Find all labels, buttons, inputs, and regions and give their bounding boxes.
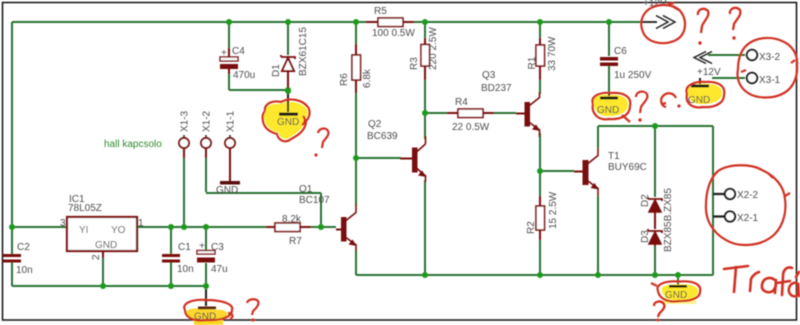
svg-text:GND: GND (277, 117, 299, 128)
red sideways question mark (661, 93, 676, 107)
svg-text:BZX85B.ZX85: BZX85B.ZX85 (663, 188, 674, 252)
wire IC1 output rail (136, 226, 266, 228)
red blob around X3 connectors (737, 38, 797, 98)
wire T1 emitter down (597, 196, 599, 275)
wire Q1 emitter to ground rail mid (355, 250, 357, 275)
svg-text:15 2.5W: 15 2.5W (548, 191, 559, 229)
svg-text:R2: R2 (526, 221, 537, 234)
zener diode D1 (271, 27, 309, 90)
svg-text:33 70W: 33 70W (547, 36, 558, 71)
wire Q2 emitter down (424, 180, 426, 275)
wire right vertical of output loop (712, 126, 714, 275)
svg-text:X1-1: X1-1 (226, 110, 237, 132)
resistor R7 (266, 214, 311, 247)
wire Q2 collector (424, 113, 426, 139)
red circle around +12V gnd (686, 82, 724, 108)
arrow into X3-2 (694, 52, 712, 64)
Trafo handwritten text (724, 266, 799, 296)
resistor R5 (366, 6, 415, 39)
junction Q1 base node (318, 224, 324, 230)
wire C6 bottom to gnd (608, 66, 610, 93)
resistor R6 (339, 44, 373, 93)
junction top rail C6 (606, 19, 612, 25)
wire node to T1 base (540, 170, 574, 172)
junction R2 bottom rail (537, 272, 543, 278)
wire R1 to Q3 collector (539, 80, 541, 94)
wire C4 bottom to D1 anode (229, 74, 288, 90)
wire R7 to Q1 base (309, 226, 336, 228)
ground D1 (yellow highlight) (264, 88, 308, 139)
svg-text:BZX61C15: BZX61C15 (298, 27, 309, 76)
svg-text:R7: R7 (289, 236, 302, 247)
red circle around D1 gnd (263, 99, 310, 141)
capacitor C4 (electrolytic) (220, 46, 255, 81)
svg-text:100 0.5W: 100 0.5W (372, 28, 415, 39)
ground +12V net (yellow highlight) (688, 78, 722, 106)
wire 5V rail to IC1 (12, 226, 67, 228)
capacitor C3 (electrolytic) (197, 241, 228, 275)
junction T1 emitter rail (595, 272, 601, 278)
red question mark right of C6 gnd (636, 92, 647, 113)
svg-text:R3: R3 (409, 57, 420, 70)
wire C2 branch (11, 227, 13, 286)
wire X1-2 to Q1 base node (206, 158, 321, 227)
svg-text:X1-2: X1-2 (202, 110, 213, 132)
connector X1-3 (179, 110, 191, 158)
svg-text:YI: YI (79, 225, 88, 236)
wire Q3 emitter to node (539, 133, 541, 171)
svg-text:GND: GND (597, 105, 619, 116)
wire R3 bottom to node (424, 80, 426, 113)
svg-text:YO: YO (111, 225, 126, 236)
junction top rail D1 (285, 19, 291, 25)
junction R3 Q2 node (422, 110, 428, 116)
svg-text:C4: C4 (232, 46, 245, 57)
connector X2-2 (713, 189, 759, 201)
svg-text:C2: C2 (17, 242, 30, 253)
svg-text:X3-2: X3-2 (759, 52, 781, 63)
junction top rail R3 (422, 19, 428, 25)
svg-text:C3: C3 (211, 242, 224, 253)
svg-text:X2-2: X2-2 (737, 190, 759, 201)
wire R6 top (355, 22, 357, 44)
red question mark top 2 (730, 8, 740, 30)
wire C1 branch (170, 227, 172, 286)
resistor R2 (526, 191, 559, 240)
wire X3-2 to arrow (708, 54, 745, 56)
svg-text:GND: GND (95, 240, 117, 251)
wire X1-3 down (183, 158, 185, 227)
svg-text:1u 250V: 1u 250V (614, 70, 652, 81)
wire left vertical (11, 22, 13, 227)
wire ground rail mid (356, 274, 713, 276)
wire D1 top (287, 22, 289, 55)
connector X3-2 (747, 50, 781, 63)
svg-text:R6: R6 (339, 73, 350, 86)
zener diode D2 (640, 194, 662, 229)
wire R4 to Q3 base (494, 112, 516, 114)
svg-text:R5: R5 (374, 6, 387, 17)
svg-text:1: 1 (138, 218, 144, 229)
transistor T1 BUY69C (574, 148, 647, 196)
red circle around +12V arrow (641, 3, 685, 43)
red blob around X2 connectors (Trafo) (706, 165, 790, 245)
ground bottom right (yellow highlight) (662, 284, 698, 304)
svg-text:2: 2 (91, 254, 102, 260)
svg-text:GND: GND (216, 185, 238, 196)
wire C4 top (228, 22, 230, 48)
svg-text:R1: R1 (527, 56, 538, 69)
wire ground rail left (12, 285, 206, 287)
svg-text:GND: GND (665, 290, 687, 301)
svg-text:Q2: Q2 (368, 119, 382, 130)
wire D2 top (654, 126, 656, 197)
ground X1-1 (216, 181, 240, 196)
resistor R1 (527, 36, 558, 80)
svg-text:78L05Z: 78L05Z (68, 203, 102, 214)
svg-text:X3-1: X3-1 (759, 75, 781, 86)
connector X1-1 (225, 110, 237, 181)
svg-text:Q3: Q3 (482, 70, 496, 81)
junction top rail C4 (226, 19, 232, 25)
+12V arrow output (top) (641, 0, 675, 29)
svg-text:22 0.5W: 22 0.5W (452, 122, 490, 133)
wire T1 collector up (597, 126, 599, 148)
junction gnd rail right (675, 272, 681, 278)
junction D2 top node (652, 123, 658, 129)
wire D3 bottom (654, 245, 656, 275)
svg-text:+12V: +12V (697, 67, 721, 78)
zener diode D3 (640, 188, 674, 252)
wire Q1 collector (355, 158, 357, 205)
red question mark near D1 gnd (318, 129, 328, 148)
red question mark bottom-left (247, 299, 258, 315)
junction top rail R1 (537, 19, 543, 25)
svg-text:C1: C1 (178, 242, 191, 253)
svg-text:+: + (221, 48, 227, 59)
junction top rail R6 (353, 19, 359, 25)
junction IC1 gnd (100, 283, 106, 289)
transistor Q3 BD237 (481, 70, 541, 137)
junction left rail (9, 224, 15, 230)
svg-text:3: 3 (60, 218, 66, 229)
svg-text:hall kapcsolo: hall kapcsolo (104, 139, 162, 150)
IC1 voltage regulator 78L05Z (60, 194, 144, 260)
connector X3-1 (747, 73, 781, 86)
wire R1 top (539, 22, 541, 45)
svg-text:D1: D1 (271, 64, 282, 77)
capacitor C6 (600, 46, 652, 81)
wire gnd stub bottom right (677, 278, 679, 285)
svg-text:X1-3: X1-3 (180, 110, 191, 132)
svg-text:D2: D2 (640, 194, 651, 207)
wire node to Q2 base (356, 157, 401, 159)
wire D2 to D3 (654, 213, 656, 229)
svg-text:BC639: BC639 (367, 131, 398, 142)
red question mark top 1 (698, 9, 708, 33)
svg-text:47u: 47u (211, 264, 228, 275)
svg-text:D3: D3 (640, 230, 651, 243)
ground C6 (yellow highlight) (594, 93, 628, 116)
junction X1-3 (181, 224, 187, 230)
svg-text:+: + (199, 241, 205, 252)
svg-text:8.2k: 8.2k (282, 214, 302, 225)
red oval around bottom-left gnd (184, 300, 232, 321)
wire R2 bottom (539, 240, 541, 275)
svg-text:BD237: BD237 (481, 83, 512, 94)
transistor Q1 BC107 (299, 184, 357, 251)
svg-text:R4: R4 (455, 97, 468, 108)
wire X3-1 +12V net (712, 77, 745, 79)
junction D1 anode node (285, 87, 291, 93)
svg-text:220 2.5W: 220 2.5W (428, 27, 439, 70)
ground C3 bottom (yellow highlight) (186, 289, 228, 325)
capacitor C2 (3, 242, 33, 276)
svg-text:10n: 10n (16, 265, 33, 276)
svg-text:X2-1: X2-1 (737, 213, 759, 224)
junction C1 top (168, 224, 174, 230)
wire R3 top (424, 22, 426, 45)
wire top rail (12, 21, 641, 23)
wire C6 top (608, 22, 610, 56)
junction Q2 emitter rail (422, 272, 428, 278)
svg-text:C6: C6 (614, 46, 627, 57)
svg-text:6.8k: 6.8k (362, 68, 373, 88)
wire T1 collector top (598, 125, 713, 127)
wire node to R4 (425, 112, 447, 114)
junction C3 top (203, 224, 209, 230)
svg-text:BC107: BC107 (299, 195, 330, 206)
svg-text:T1: T1 (608, 151, 620, 162)
junction C3 bottom (203, 283, 209, 289)
svg-text:470u: 470u (233, 70, 255, 81)
connector X1-2 (201, 110, 213, 158)
red oval around bottom-right gnd (651, 281, 700, 301)
junction R6 bottom node (353, 155, 359, 161)
wire R6 bottom node (355, 93, 357, 158)
wire C3 branch (205, 227, 207, 286)
resistor R3 (409, 27, 439, 80)
svg-text:BUY69C: BUY69C (608, 162, 647, 173)
junction C1 bottom (168, 283, 174, 289)
junction Q3 emitter node (537, 168, 543, 174)
svg-text:Q1: Q1 (299, 184, 313, 195)
resistor R4 (447, 97, 494, 133)
red question mark bottom right (654, 302, 664, 317)
junction D3 bottom rail (652, 272, 658, 278)
svg-text:10n: 10n (177, 264, 194, 275)
connector X2-1 (713, 211, 759, 224)
wire IC1 gnd pin (102, 258, 104, 286)
transistor Q2 BC639 (367, 119, 427, 182)
wire R2 top (539, 171, 541, 206)
red circle around C6 gnd (592, 93, 630, 122)
capacitor C1 (162, 242, 194, 275)
